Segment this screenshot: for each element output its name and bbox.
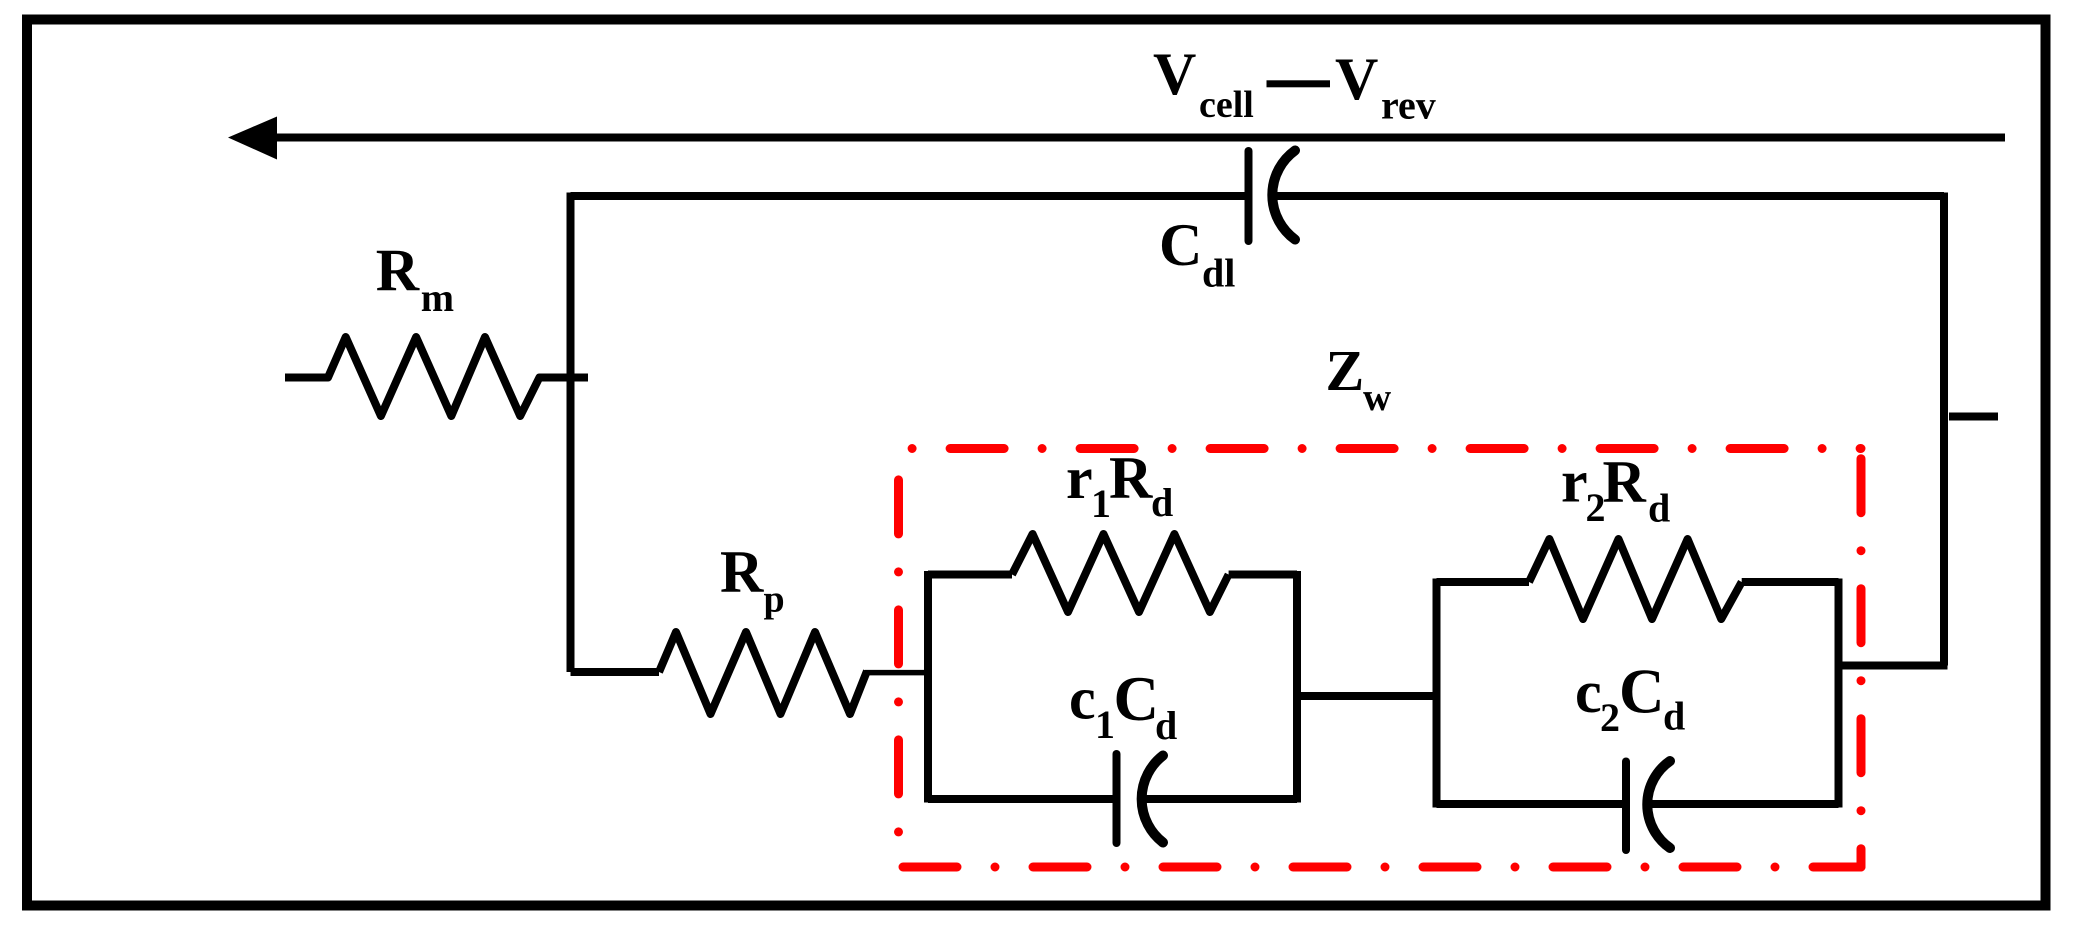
svg-text:d: d (1663, 694, 1685, 739)
wire bottom left horizontal (571, 668, 660, 676)
svg-text:2: 2 (1600, 695, 1620, 740)
wire block2 bottom right (1648, 800, 1839, 808)
label r1 R_d (1066, 445, 1173, 526)
wire block1 right edge (1293, 571, 1301, 803)
resistor R_m (285, 337, 588, 416)
svg-text:R: R (1109, 445, 1153, 511)
svg-text:d: d (1155, 703, 1177, 748)
arrow for V_cell - V_rev (228, 117, 2005, 160)
label R_p (720, 539, 785, 621)
svg-text:C: C (1114, 664, 1160, 734)
svg-text:R: R (1603, 449, 1647, 515)
wire block1 top left (928, 571, 1012, 579)
svg-text:R: R (376, 238, 420, 304)
label Z_w (1326, 338, 1392, 419)
label C_dl (1159, 212, 1235, 296)
wire R_p to block1 (865, 670, 931, 676)
label r2 R_d (1561, 449, 1670, 531)
wire between blocks (1297, 692, 1437, 700)
svg-text:dl: dl (1202, 251, 1235, 296)
capacitor c1 C_d (1117, 754, 1164, 843)
wire left vertical (567, 193, 575, 673)
svg-text:m: m (421, 275, 454, 320)
svg-text:p: p (764, 579, 785, 621)
stub dash right of vertical (1949, 413, 1998, 421)
svg-text:cell: cell (1199, 84, 1254, 126)
svg-text:V: V (1153, 41, 1196, 107)
resistor r2 R_d (1529, 539, 1742, 619)
svg-text:c: c (1069, 666, 1096, 732)
label R_m (376, 238, 454, 321)
resistor R_p (659, 632, 867, 714)
svg-text:d: d (1648, 486, 1670, 531)
wire block1 top right (1229, 571, 1297, 579)
label c1 C_d (1069, 664, 1177, 748)
wire block2 to right vertical (1839, 662, 1948, 670)
svg-text:r: r (1066, 445, 1093, 511)
wire block2 left edge (1433, 579, 1441, 808)
wire top right (C_dl to right corner) (1270, 192, 1944, 200)
wire block2 top left (1437, 578, 1530, 586)
svg-text:R: R (720, 539, 764, 605)
resistor r1 R_d (1012, 534, 1229, 612)
svg-text:1: 1 (1095, 702, 1115, 747)
svg-text:rev: rev (1381, 83, 1436, 128)
wire block2 right edge (1835, 579, 1843, 808)
wire block2 bottom left (1437, 800, 1623, 808)
red dash-dot box (Warburg boundary) (899, 449, 1862, 868)
wire right vertical (1940, 193, 1948, 666)
label c2 C_d (1575, 657, 1685, 741)
svg-text:1: 1 (1091, 481, 1111, 526)
svg-text:w: w (1363, 376, 1391, 419)
svg-text:C: C (1159, 212, 1202, 278)
svg-text:C: C (1619, 657, 1665, 727)
wire block1 bottom right (1140, 795, 1297, 803)
capacitor c2 C_d (1626, 761, 1670, 850)
label V_cell - V_rev (1153, 41, 1436, 128)
wire block2 top right (1742, 578, 1839, 586)
svg-text:r: r (1561, 449, 1588, 515)
svg-text:V: V (1335, 46, 1378, 112)
svg-text:Z: Z (1326, 338, 1365, 403)
svg-text:d: d (1151, 480, 1173, 525)
wire top left (to C_dl) (571, 192, 1246, 200)
capacitor C_dl (1249, 151, 1296, 242)
svg-text:c: c (1575, 659, 1602, 725)
wire block1 left edge (924, 571, 932, 803)
wire block1 bottom left (928, 795, 1113, 803)
